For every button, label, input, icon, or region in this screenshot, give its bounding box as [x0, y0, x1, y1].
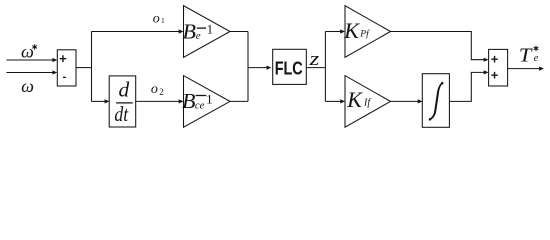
arrowhead omega into S1	[52, 70, 57, 74]
svg-text:-: -	[63, 71, 67, 83]
svg-text:1: 1	[206, 92, 213, 107]
arrowhead KPf path into S2	[484, 58, 489, 62]
svg-text:1: 1	[207, 21, 214, 36]
arrowhead into KPf	[340, 29, 345, 33]
wire integrator output elbow to S2	[449, 72, 484, 101]
svg-text:ce: ce	[195, 101, 205, 112]
wire into FLC	[248, 67, 267, 69]
svg-text:+: +	[491, 68, 499, 83]
svg-text:1: 1	[161, 16, 165, 25]
svg-text:B: B	[182, 89, 196, 113]
wire Bce apex to node B	[230, 100, 248, 102]
svg-text:T: T	[519, 46, 533, 67]
svg-text:o: o	[151, 82, 158, 97]
gain block KIf triangle	[345, 76, 391, 128]
wire omega* input	[7, 59, 54, 61]
svg-text:e: e	[196, 30, 201, 42]
label KPf	[343, 18, 370, 43]
wire top branch o1 to Be triangle	[92, 31, 180, 33]
label integral sign	[429, 82, 444, 121]
block integrator box	[422, 74, 449, 128]
gain block KPf triangle	[345, 6, 391, 58]
label Bce^-1	[182, 89, 213, 113]
gain block Bce^-1 triangle	[184, 76, 231, 128]
svg-text:ω: ω	[21, 76, 34, 96]
svg-text:z: z	[308, 49, 320, 70]
wire node C vertical	[324, 32, 326, 102]
label d/dt fraction	[114, 78, 132, 126]
svg-text:If: If	[363, 98, 371, 109]
wire into KIf	[325, 100, 340, 102]
wire o2 from d/dt to Bce triangle	[136, 100, 180, 102]
block FLC box	[273, 49, 307, 84]
svg-text:o: o	[153, 11, 160, 26]
label Te*	[519, 46, 539, 67]
svg-text:K: K	[346, 87, 363, 112]
wire KPf output elbow to S2	[391, 32, 485, 60]
wire bottom elbow into d/dt	[92, 100, 106, 102]
block d/dt box	[109, 76, 136, 127]
svg-text:2: 2	[159, 87, 164, 97]
arrowhead integrator path into S2	[484, 70, 489, 74]
arrowhead Te* output	[539, 67, 544, 71]
arrowhead o2 into Bce	[179, 99, 184, 103]
wire FLC output z	[306, 67, 325, 69]
svg-text:FLC: FLC	[275, 59, 303, 79]
wire split vertical node A	[91, 32, 93, 102]
wire Be apex to node B	[230, 31, 248, 33]
wire node B vertical	[247, 32, 249, 102]
label o2	[151, 82, 164, 97]
svg-text:e: e	[534, 53, 539, 64]
arrowhead into FLC	[267, 66, 272, 70]
gain block Be^-1 triangle	[184, 6, 231, 58]
svg-text:K: K	[343, 18, 360, 43]
wire into KPf	[325, 31, 340, 33]
wire Te* output	[508, 68, 540, 70]
label omega* input 1	[21, 42, 37, 62]
svg-text:+: +	[59, 51, 67, 66]
arrowhead o1 into Be	[179, 29, 184, 33]
arrowhead into d/dt	[105, 99, 110, 103]
label Be^-1	[183, 19, 214, 43]
svg-text:B: B	[183, 19, 197, 43]
svg-text:+: +	[491, 51, 499, 66]
arrowhead into integrator	[418, 99, 423, 103]
summing junction S2 box	[489, 49, 508, 86]
wire S1 output to split node	[76, 67, 92, 69]
label o1	[153, 11, 165, 26]
wire omega input	[7, 72, 54, 74]
arrowhead omega* into S1	[52, 58, 57, 62]
wire KIf output into integrator	[391, 100, 419, 102]
svg-text:ω: ω	[21, 42, 34, 62]
svg-text:Pf: Pf	[359, 29, 370, 40]
svg-text:d: d	[119, 78, 130, 102]
arrowhead into KIf	[340, 99, 345, 103]
label KIf	[346, 87, 371, 112]
summing junction S1 box	[57, 50, 76, 86]
svg-text:dt: dt	[114, 102, 129, 126]
